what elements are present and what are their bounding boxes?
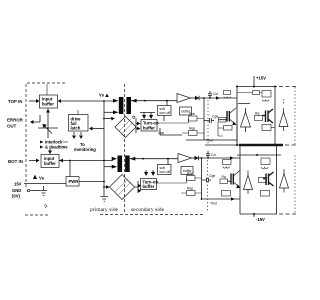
To monitoring arrows [74,132,81,135]
svg-text:latch: latch [71,126,81,131]
wire [58,100,114,102]
resistor Rge2 [187,191,196,196]
ground [101,197,109,202]
transformer T1 [119,97,124,114]
svg-text:(0V): (0V) [12,194,21,199]
ground [40,186,47,195]
dashed net Vge [207,100,209,145]
dashed border right lower [294,155,296,214]
wire [201,198,203,200]
dashed border left [25,84,27,188]
dashed boundary primary/secondary [124,84,126,214]
dashed border bottom-mid [100,214,205,216]
wire [201,158,203,199]
resistor Rb1 [219,118,227,123]
Turn-on buffer U6 [141,179,157,190]
diode D10 [280,174,289,189]
wire [186,135,237,140]
resistor Rb2 [224,126,233,131]
resistor R6 [223,160,232,165]
wire [33,115,40,122]
interlock & deadtime block [63,141,68,143]
capacitor Ccl2 [206,151,210,158]
svg-text:PWR: PWR [69,179,79,184]
transistor Q5 [263,172,274,186]
svg-text:Tbot: Tbot [206,139,213,143]
svg-text:Ccl: Ccl [211,153,216,157]
diode D8 [279,112,288,127]
diodes D1 D2 [140,113,155,116]
buffer amp A2 [178,154,192,163]
wire [160,128,182,135]
wire [92,128,104,130]
diode D3 [191,97,205,99]
wire [203,97,205,99]
svg-text:Rg: Rg [255,112,259,116]
resistor R3 [262,91,271,98]
wire [79,181,104,183]
svg-text:primary side: primary side [90,207,119,213]
buffer block [181,167,193,175]
dashed border right [294,87,296,145]
wire [201,157,203,159]
resistor R10 [259,178,267,183]
svg-text:Vs: Vs [39,176,45,181]
PWR block [69,161,71,177]
svg-text:& deadtime: & deadtime [45,145,68,150]
resistor R4 [255,116,263,121]
svg-text:ERROR: ERROR [7,118,24,123]
rail lower-top [237,154,281,156]
dashed border bottom-left [25,214,50,216]
rail mid [205,144,240,146]
svg-text:Rg: Rg [222,175,226,179]
resistor R11 [261,191,270,197]
svg-text:turn-off: turn-off [160,170,171,174]
drive fail latch U2 [69,115,89,132]
diode D9 [244,175,253,190]
capacitor Cge [204,118,214,123]
input buffer U1 [40,95,58,108]
svg-text:monitoring: monitoring [74,147,96,152]
buffer amp A1 [177,94,191,103]
input buffer U3 [41,155,59,168]
buffer block [180,107,192,115]
svg-text:Tbot: Tbot [210,202,217,206]
svg-text:Rge: Rge [187,187,193,191]
diodes D4 D5 [146,170,153,172]
svg-text:Cge: Cge [209,174,215,178]
rail right [274,87,276,146]
svg-text:TOP IN: TOP IN [8,99,22,104]
wire [29,160,36,162]
wire [49,148,51,154]
svg-text:buffer: buffer [143,126,155,131]
wire [130,158,178,160]
wire [29,100,36,102]
wire [203,98,205,135]
svg-text:GND: GND [12,188,21,193]
wire [136,119,137,134]
capacitor Cge2 [202,178,212,183]
resistor R9 [222,191,231,197]
resistor R8 [220,179,228,184]
diode D7 [241,112,251,127]
svg-text:turn-off: turn-off [160,111,171,115]
Turn-on buffer U4 [141,120,157,132]
diode bridge B1 [115,117,136,138]
svg-text:Ron: Ron [187,172,193,176]
node Vs [33,175,37,180]
svg-text:Ccl: Ccl [213,92,218,96]
resistor Rge [189,131,198,136]
resistor R1 [224,91,231,95]
svg-text:+15V: +15V [256,76,266,81]
rail bottom [240,213,277,215]
svg-text:15V: 15V [14,182,22,187]
wire [131,100,177,102]
wire [59,160,113,162]
rail top [237,86,277,88]
diode D6 [192,157,202,159]
node -15V [253,214,255,217]
wire [103,101,105,196]
wire [164,101,167,121]
svg-text:buffer: buffer [44,161,56,166]
svg-text:secondary side: secondary side [131,207,165,213]
wire [167,159,169,165]
dashed border top (primary section) [27,82,67,84]
transistor Q2 [227,111,229,122]
svg-text:BOT IN: BOT IN [8,159,23,164]
svg-text:Cge: Cge [212,115,218,119]
resistor R5 [262,125,271,131]
transformer T2 [118,156,123,173]
capacitor Ccl [208,91,212,98]
wire [135,181,139,193]
transistor Q3 [263,109,274,123]
svg-text:Rge: Rge [189,127,195,131]
transistor Q4 [231,174,233,185]
wire [30,190,40,192]
svg-text:buffer: buffer [42,102,54,107]
soft turn-off U5 [158,106,172,116]
svg-text:Ron: Ron [189,112,195,116]
svg-text:Vs: Vs [99,93,105,98]
dashed net Vge2 [207,160,209,212]
svg-text:-15V: -15V [256,217,265,222]
diode bridge B2 [110,175,135,200]
resistor Ron [189,116,198,121]
svg-text:buffer: buffer [143,184,155,189]
transistor Q1 [47,109,49,121]
svg-text:Cgs: Cgs [158,131,164,135]
rail left [236,87,238,146]
resistor Ron2 [187,176,196,181]
soft turn-off U7 [158,165,172,175]
resistor R2 [253,91,260,95]
svg-text:OUT: OUT [7,124,17,129]
resistor R7 [261,158,270,165]
